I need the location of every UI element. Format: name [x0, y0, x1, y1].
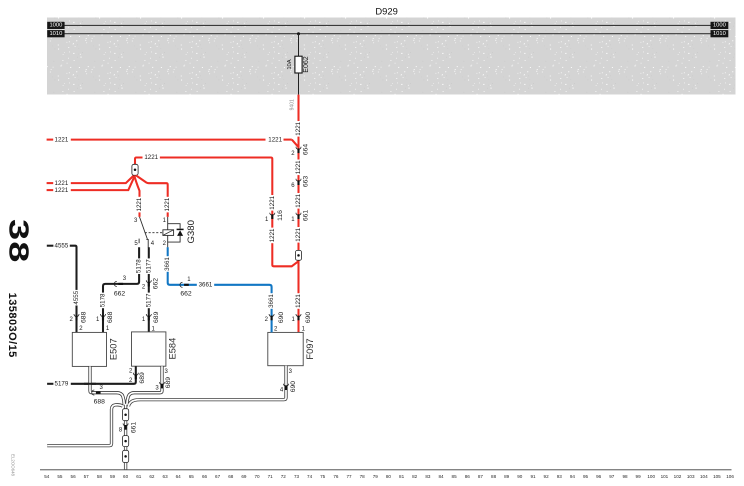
bus wire 1000 [65, 24, 711, 26]
svg-text:1221: 1221 [136, 197, 143, 211]
wire fuse to band edge [298, 73, 300, 95]
svg-text:68: 68 [228, 474, 234, 479]
fuse E062 10A [295, 56, 302, 73]
label 4555 [55, 242, 69, 249]
svg-text:58: 58 [97, 474, 103, 479]
label 8 [119, 428, 123, 434]
svg-text:688: 688 [107, 311, 114, 323]
svg-text:97: 97 [609, 474, 615, 479]
label 1221 [295, 293, 302, 309]
connector X690 pin 1 [296, 314, 301, 320]
label 4 [280, 387, 284, 393]
svg-text:72: 72 [281, 474, 287, 479]
label 2 [291, 151, 295, 157]
svg-text:1221: 1221 [144, 154, 158, 161]
svg-text:E062: E062 [303, 56, 310, 72]
svg-text:10A: 10A [287, 59, 293, 69]
label 664 [302, 144, 309, 156]
label E584 [168, 338, 178, 360]
svg-text:G380: G380 [186, 220, 197, 243]
svg-text:689: 689 [165, 377, 172, 389]
connector X689 pin 2 [133, 373, 138, 379]
svg-text:690: 690 [278, 312, 285, 324]
label 1221 [55, 180, 69, 187]
svg-text:89: 89 [504, 474, 510, 479]
svg-text:662: 662 [180, 290, 192, 297]
wire bus to fuse [298, 34, 300, 57]
wire 1221 from splice to right column [135, 158, 299, 267]
svg-text:91: 91 [530, 474, 536, 479]
label 3661 [268, 293, 275, 309]
connector X663 pin 6 [296, 179, 301, 185]
svg-text:59: 59 [110, 474, 116, 479]
svg-text:104: 104 [700, 474, 708, 479]
svg-text:5178: 5178 [100, 293, 107, 307]
label 1221 [164, 197, 171, 213]
connector X661 pin 1 [296, 213, 301, 219]
wire 3661 relay pin2 to F097 pin2 [168, 247, 272, 332]
svg-text:96: 96 [596, 474, 602, 479]
svg-text:87: 87 [478, 474, 484, 479]
connector X690 pin 4 [283, 384, 288, 390]
svg-text:67: 67 [215, 474, 221, 479]
relay G380 [134, 217, 184, 248]
wire 5179 [47, 366, 136, 384]
svg-text:54: 54 [44, 474, 50, 479]
svg-text:5177: 5177 [145, 259, 152, 273]
label 662 [153, 278, 160, 290]
svg-text:9401: 9401 [289, 99, 295, 110]
svg-text:38: 38 [3, 219, 34, 264]
connector X689 pin 3 [159, 382, 164, 388]
connector X664 pin 2 [296, 147, 301, 153]
svg-text:102: 102 [674, 474, 682, 479]
net label 1010 left [47, 30, 64, 37]
svg-text:D929: D929 [375, 6, 397, 17]
label G380 [186, 220, 197, 243]
label 2 [265, 317, 269, 323]
label 1221 [55, 187, 69, 194]
splice ground 2 [123, 436, 129, 447]
wire 1221 feed upper left [47, 176, 134, 184]
svg-text:664: 664 [302, 144, 309, 156]
label 688 [107, 311, 114, 323]
svg-text:56: 56 [71, 474, 77, 479]
node on bus 1010 [297, 32, 300, 35]
label 1 [291, 217, 295, 223]
label 10A [287, 59, 293, 69]
label 6 [291, 183, 295, 189]
label 1 [302, 326, 306, 332]
label F097 [305, 338, 315, 359]
label 662 [180, 290, 192, 297]
label 690 [305, 312, 312, 324]
label 3 [289, 369, 293, 375]
label 661 [130, 422, 137, 434]
wire 1221 feed lower left [47, 176, 135, 190]
svg-text:1221: 1221 [295, 294, 302, 308]
label 690 [290, 381, 297, 393]
label 2 [129, 378, 133, 384]
label 690 [278, 312, 285, 324]
svg-text:75: 75 [320, 474, 326, 479]
connector X116 pin 1 [270, 213, 275, 219]
svg-text:663: 663 [302, 176, 309, 188]
connector X662 pin 1 [180, 282, 189, 287]
svg-text:99: 99 [636, 474, 642, 479]
label 5177 [145, 258, 152, 274]
svg-text:135803O/15: 135803O/15 [6, 293, 18, 358]
wire 1221 splice to relay pin 1 [136, 175, 168, 217]
label 3 [100, 385, 104, 391]
svg-text:95: 95 [583, 474, 589, 479]
label 5179 [55, 381, 69, 388]
label 1221 [55, 136, 69, 143]
svg-text:1221: 1221 [164, 197, 171, 211]
label 1221 [268, 136, 282, 143]
svg-text:94: 94 [570, 474, 576, 479]
label 5178 [136, 258, 143, 274]
svg-text:EL2OO648: EL2OO648 [11, 454, 16, 477]
connector X661 pin 8 [123, 423, 128, 429]
svg-text:77: 77 [346, 474, 352, 479]
svg-text:78: 78 [360, 474, 366, 479]
svg-text:1221: 1221 [55, 136, 69, 143]
grid ruler [40, 470, 734, 479]
svg-text:80: 80 [386, 474, 392, 479]
svg-text:57: 57 [84, 474, 90, 479]
wire 1221 fuse feed [297, 95, 299, 333]
splice ground 1 [123, 409, 129, 421]
label 116 [277, 210, 284, 221]
svg-text:65: 65 [189, 474, 195, 479]
svg-text:70: 70 [254, 474, 260, 479]
svg-text:4555: 4555 [55, 242, 69, 249]
label 5177 [145, 293, 152, 309]
svg-text:74: 74 [307, 474, 313, 479]
svg-text:688: 688 [94, 398, 106, 405]
earth wire harness (outline wires) [47, 366, 286, 470]
svg-text:1221: 1221 [295, 121, 302, 135]
connector X662 pin 3 [114, 281, 123, 286]
svg-text:63: 63 [163, 474, 169, 479]
svg-text:105: 105 [713, 474, 721, 479]
svg-text:689: 689 [139, 372, 146, 384]
connector X688 pin 2 [74, 314, 79, 320]
label 1221 [295, 227, 302, 243]
svg-text:103: 103 [687, 474, 695, 479]
label 1 [96, 317, 100, 323]
svg-text:661: 661 [302, 210, 309, 222]
label 5178 [100, 293, 107, 309]
svg-text:1010: 1010 [49, 31, 62, 37]
svg-text:5177: 5177 [145, 293, 152, 307]
label 689 [153, 311, 160, 323]
svg-text:86: 86 [465, 474, 471, 479]
label 1 [106, 326, 110, 332]
connector X662 pin 2 [146, 280, 151, 286]
wire 1221 splice to relay pin 3 [134, 175, 139, 217]
svg-text:79: 79 [373, 474, 379, 479]
svg-text:106: 106 [726, 474, 734, 479]
label 3661 [164, 256, 171, 272]
label 689 [139, 372, 146, 384]
svg-text:4555: 4555 [73, 290, 80, 304]
label 688 [81, 311, 88, 323]
label 3 [165, 369, 169, 375]
svg-text:5178: 5178 [136, 259, 143, 273]
svg-text:689: 689 [153, 311, 160, 323]
label 1 [152, 327, 156, 333]
svg-text:61: 61 [136, 474, 142, 479]
svg-text:1221: 1221 [55, 180, 69, 187]
svg-text:690: 690 [290, 381, 297, 393]
label 1 [291, 317, 295, 323]
page number 38 [3, 219, 34, 264]
component F097 [268, 332, 303, 365]
svg-text:71: 71 [268, 474, 274, 479]
svg-text:5179: 5179 [55, 381, 69, 388]
connector X689 pin 1 [146, 314, 151, 320]
svg-text:1221: 1221 [55, 187, 69, 194]
wire 5177 [148, 247, 150, 332]
splice on wire 1221 [295, 250, 301, 260]
svg-text:64: 64 [176, 474, 182, 479]
label E062 [303, 56, 310, 72]
svg-text:F097: F097 [305, 338, 315, 359]
connector X690 pin 2 [269, 314, 274, 320]
svg-text:3661: 3661 [199, 281, 213, 288]
label E507 [109, 338, 119, 360]
label 2 [79, 326, 83, 332]
svg-text:83: 83 [425, 474, 431, 479]
splice A red distribution [132, 164, 138, 175]
label 1221 [269, 195, 276, 211]
svg-text:1000: 1000 [49, 23, 62, 29]
svg-text:55: 55 [57, 474, 63, 479]
svg-text:1221: 1221 [295, 160, 302, 174]
net label 1010 right [711, 30, 729, 37]
svg-text:98: 98 [622, 474, 628, 479]
svg-text:100: 100 [647, 474, 655, 479]
label 1221 [136, 197, 143, 213]
svg-text:60: 60 [123, 474, 129, 479]
label 1 [265, 217, 269, 223]
svg-text:661: 661 [130, 422, 137, 434]
wire 5178 [103, 247, 139, 332]
net label 1000 right [711, 22, 729, 29]
svg-text:81: 81 [399, 474, 405, 479]
svg-text:92: 92 [544, 474, 550, 479]
label 2 [274, 326, 278, 332]
net label 1000 left [47, 22, 64, 29]
label 688 [94, 398, 106, 405]
svg-text:E584: E584 [168, 338, 178, 360]
svg-text:93: 93 [557, 474, 563, 479]
svg-text:84: 84 [438, 474, 444, 479]
harness band [47, 18, 736, 95]
svg-text:116: 116 [277, 210, 284, 221]
svg-text:85: 85 [452, 474, 458, 479]
svg-text:66: 66 [202, 474, 208, 479]
svg-text:101: 101 [661, 474, 669, 479]
label 2 [129, 369, 133, 375]
svg-text:1221: 1221 [295, 193, 302, 207]
svg-text:1221: 1221 [269, 228, 276, 242]
label 1 [142, 317, 146, 323]
component E507 [72, 332, 106, 366]
svg-text:690: 690 [305, 312, 312, 324]
svg-text:90: 90 [517, 474, 523, 479]
svg-text:662: 662 [114, 290, 126, 297]
label 3661 [197, 281, 214, 288]
label 1 [187, 277, 191, 283]
label 2 [70, 317, 74, 323]
svg-text:1221: 1221 [268, 136, 282, 143]
svg-text:3661: 3661 [164, 257, 171, 271]
svg-text:1221: 1221 [269, 195, 276, 209]
label 3 [155, 385, 159, 391]
svg-text:76: 76 [333, 474, 339, 479]
label 1221 [143, 154, 160, 161]
wire 5179 over harness [84, 383, 96, 385]
svg-text:73: 73 [294, 474, 300, 479]
svg-text:688: 688 [81, 311, 88, 323]
component E584 [132, 332, 166, 366]
svg-text:1221: 1221 [295, 227, 302, 241]
label 3 [123, 276, 127, 282]
svg-text:69: 69 [241, 474, 247, 479]
label 663 [302, 176, 309, 188]
svg-text:62: 62 [149, 474, 155, 479]
connector X688 pin 1 [100, 314, 105, 320]
label 1221 [295, 121, 302, 137]
svg-text:1000: 1000 [713, 23, 726, 29]
label 9401 [289, 99, 295, 110]
label 661 [302, 210, 309, 222]
svg-text:3661: 3661 [268, 294, 275, 308]
label 1221 [295, 193, 302, 209]
svg-text:662: 662 [153, 278, 160, 290]
label 1221 [269, 228, 276, 244]
label 1221 [295, 160, 302, 176]
bus wire 1010 [65, 33, 711, 35]
svg-text:82: 82 [412, 474, 418, 479]
wire 1221 horizontal top [47, 140, 299, 148]
wire 4555 [47, 246, 77, 333]
label 662 [114, 290, 126, 297]
svg-text:1010: 1010 [713, 31, 726, 37]
svg-text:88: 88 [491, 474, 497, 479]
label 4555 [73, 290, 80, 306]
label 689 [165, 377, 172, 389]
svg-text:E507: E507 [109, 338, 119, 360]
label 2 [142, 284, 146, 290]
splice ground 3 [123, 450, 129, 462]
connector X688 pin 3 [92, 390, 101, 395]
